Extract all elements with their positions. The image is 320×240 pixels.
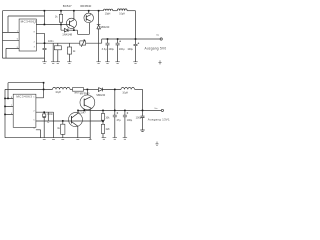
svg-text:100n: 100n xyxy=(48,40,54,43)
wire pin5 gnd L xyxy=(6,48,19,58)
svg-text:BC547: BC547 xyxy=(63,4,72,8)
resistor R4 xyxy=(62,121,64,124)
wire left input vertical xyxy=(2,11,4,58)
wire pin2 row xyxy=(36,33,44,43)
svg-text:2: 2 xyxy=(34,42,36,44)
transistor Q4 BC547 xyxy=(69,113,83,127)
capacitor C7 xyxy=(113,110,117,137)
ground symbol D1 xyxy=(96,62,100,64)
wire mid output rail xyxy=(102,38,136,40)
wire output terminal row xyxy=(136,38,161,40)
capacitor C4 xyxy=(116,39,120,62)
svg-text:10µH: 10µH xyxy=(119,13,125,15)
BOTTOM CIRCUIT xyxy=(5,83,163,146)
capacitor C8 xyxy=(123,110,127,137)
junction dots bottom xyxy=(4,82,143,122)
svg-text:1n: 1n xyxy=(47,122,50,124)
diode D1 SB0240 vertical xyxy=(98,11,100,62)
labels bottom xyxy=(11,92,170,131)
plus sign C5 xyxy=(138,42,140,44)
resistor R1 xyxy=(60,11,62,15)
wire input rail top xyxy=(3,10,104,12)
resistor R3 xyxy=(68,43,70,47)
transistor Q1 BC547 xyxy=(66,18,76,28)
wire output row bottom xyxy=(78,109,143,111)
wire gnd drop bottom xyxy=(53,112,55,138)
wire trimmer to midrail xyxy=(86,39,102,43)
svg-text:8: 8 xyxy=(34,32,36,34)
svg-text:IRF9540: IRF9540 xyxy=(80,92,90,95)
inductor L3 xyxy=(53,87,71,89)
wire output vertical xyxy=(135,11,137,62)
svg-text:100µ: 100µ xyxy=(119,48,125,51)
capacitor C5 plates xyxy=(134,44,138,45)
svg-text:100µ: 100µ xyxy=(136,116,142,119)
wire gnd loop bottom xyxy=(5,130,90,138)
ground symbol C5 xyxy=(133,62,137,64)
ground symbol C3 xyxy=(105,62,109,64)
wire coil2 to corner xyxy=(135,88,143,90)
op-amp U1 MC34063 box xyxy=(19,19,36,51)
ground symbol small bottom right xyxy=(155,142,158,146)
wire to coil2 xyxy=(103,88,121,90)
svg-text:SB0240: SB0240 xyxy=(96,94,106,97)
wire between coils xyxy=(113,10,118,12)
wire drain vertical xyxy=(89,109,91,140)
wire pin3 row xyxy=(36,42,80,44)
wire feedback row bottom xyxy=(36,120,103,122)
inductor L1 xyxy=(103,9,112,11)
wire pin rows left bottom xyxy=(5,98,13,114)
svg-text:100µ: 100µ xyxy=(127,48,133,51)
ground ticks bottom xyxy=(43,138,92,140)
wire gate path Q2 xyxy=(78,23,90,35)
wire gnd drop xyxy=(52,43,54,62)
wire coil to resistor xyxy=(70,88,73,90)
svg-text:1k: 1k xyxy=(55,16,58,19)
wire pin row 112 xyxy=(36,111,54,113)
diode D3 on rail xyxy=(98,88,102,92)
capacitor C2 xyxy=(43,43,47,62)
svg-text:1k8: 1k8 xyxy=(105,128,110,131)
terminal output circle bottom xyxy=(161,109,163,111)
diode D2 1N4148 xyxy=(61,25,78,31)
svg-text:100n: 100n xyxy=(47,113,53,116)
svg-text:1N4148: 1N4148 xyxy=(62,32,72,36)
ground symbol R3 xyxy=(67,62,71,64)
resistor R5 divider xyxy=(102,110,104,113)
wire over to pin row xyxy=(36,83,44,98)
ground symbol C4 xyxy=(115,62,119,64)
capacitor C1 timing xyxy=(57,43,59,46)
svg-text:2: 2 xyxy=(33,111,35,113)
ground symbol C8 xyxy=(123,138,127,140)
trimmer P1 xyxy=(80,41,86,45)
wire pin7 row xyxy=(3,31,20,33)
svg-text:100µ: 100µ xyxy=(108,48,114,51)
svg-text:MC34063: MC34063 xyxy=(16,95,32,99)
capacitor C9 plates xyxy=(141,116,145,117)
wire feedback over IC xyxy=(8,16,44,32)
wire left vertical bottom xyxy=(4,89,6,137)
svg-text:5: 5 xyxy=(33,119,35,121)
ground symbol C1 xyxy=(56,62,60,64)
svg-text:10k: 10k xyxy=(105,117,110,120)
svg-text:100µ: 100µ xyxy=(127,119,133,122)
junction dots top xyxy=(44,10,137,44)
wire gnd U under IC xyxy=(3,57,45,59)
svg-text:3: 3 xyxy=(34,47,36,49)
wire rail to pin1 xyxy=(43,11,45,25)
wire gate stub xyxy=(83,109,85,110)
resistor R7 on rail xyxy=(73,88,84,92)
ground symbol divider xyxy=(102,138,107,140)
wire resistor to diode node xyxy=(84,88,99,90)
ground symbol C2b xyxy=(51,62,55,64)
wire output tap vertical xyxy=(114,89,116,110)
svg-text:10µH: 10µH xyxy=(122,93,128,95)
op-amp U2 MC34063 box xyxy=(13,94,36,127)
svg-text:10µH: 10µH xyxy=(105,13,111,15)
svg-text:1k: 1k xyxy=(73,50,76,53)
wire pin vert 48 xyxy=(47,112,49,121)
wire output vertical bottom xyxy=(142,89,144,130)
plus sign C8 xyxy=(127,112,129,114)
capacitor C3 xyxy=(106,39,110,62)
plus sign C4 xyxy=(119,40,121,42)
svg-text:10µH: 10µH xyxy=(55,92,61,94)
wire feedback over IC bottom xyxy=(8,83,44,99)
svg-text:3: 3 xyxy=(33,128,35,130)
svg-text:Ausgang 5V0: Ausgang 5V0 xyxy=(145,47,167,51)
transistor Q2 xyxy=(84,13,94,23)
ground symbol output bottom xyxy=(140,130,144,132)
wire input rail bottom xyxy=(5,88,53,90)
svg-text:Ua: Ua xyxy=(155,108,159,110)
svg-text:SB0240: SB0240 xyxy=(100,26,110,29)
ground symbol small right xyxy=(158,60,161,64)
inductor L2 xyxy=(117,9,127,11)
resistor R6 divider xyxy=(101,124,104,133)
wire terminal row bottom xyxy=(143,109,162,111)
wire coil2 to output corner xyxy=(127,10,135,12)
svg-text:1k: 1k xyxy=(57,127,60,130)
transistor Q3 big xyxy=(86,89,88,95)
ground symbol C2 xyxy=(42,62,46,64)
svg-text:47µ: 47µ xyxy=(117,119,122,122)
svg-text:Ausgang 13V1: Ausgang 13V1 xyxy=(148,118,170,122)
svg-text:Ua: Ua xyxy=(156,34,160,36)
inductor L4 xyxy=(121,88,135,90)
svg-text:BC547: BC547 xyxy=(77,110,86,114)
svg-text:3.3µ: 3.3µ xyxy=(102,48,107,51)
plus sign C7 xyxy=(117,112,119,114)
svg-text:IRF9540: IRF9540 xyxy=(80,4,91,8)
terminal output circle xyxy=(160,38,162,40)
wire pin6 row xyxy=(3,39,20,41)
wire pin1 row xyxy=(36,24,67,26)
labels top xyxy=(17,4,167,53)
ground symbol C7 xyxy=(113,138,117,140)
svg-text:1: 1 xyxy=(33,96,35,98)
capacitor C6 xyxy=(43,112,45,114)
